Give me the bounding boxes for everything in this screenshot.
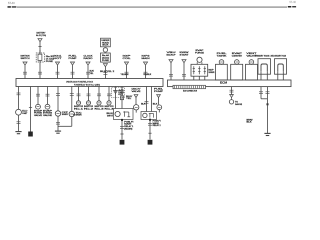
connector feed C1 ignition switch <box>21 55 30 78</box>
relay K3 fuel pump relay <box>141 112 157 120</box>
svg-text:PUMP: PUMP <box>69 58 78 60</box>
svg-text:UNIT: UNIT <box>22 113 28 115</box>
fuse box - under-dash fuse/relay box <box>16 79 163 87</box>
wire - top bus <box>17 6 287 8</box>
svg-text:BLK: BLK <box>247 122 253 124</box>
wire F1 through option connector <box>112 87 125 109</box>
svg-text:VALVE: VALVE <box>43 114 53 117</box>
wire H1 from ECM with arrow <box>229 87 242 106</box>
ground G2 <box>55 131 61 133</box>
wire label above fuse box <box>100 71 115 73</box>
svg-text:SNSR: SNSR <box>76 115 83 117</box>
wire K3 to ground <box>148 121 152 140</box>
oxygen sensor heater HO2S2 <box>271 55 287 80</box>
connector feed C5 <box>84 55 95 78</box>
relay K2 label <box>124 121 134 130</box>
relay K3 junction dot <box>149 119 151 121</box>
fuse holder C6 with fuse <box>101 38 111 78</box>
svg-text:TANK: TANK <box>217 54 228 57</box>
ground point G101 <box>28 132 33 137</box>
relay K1 coil circle <box>195 49 205 63</box>
svg-text:FUSE/RELAY BOX No.2 (ABS): FUSE/RELAY BOX No.2 (ABS) <box>74 84 100 87</box>
injector E2 <box>84 87 95 111</box>
svg-text:ECM CONNECTOR: ECM CONNECTOR <box>183 90 197 92</box>
sensor S1 with connector <box>216 53 228 80</box>
fuse box label <box>66 80 100 86</box>
svg-text:BOX: BOX <box>102 45 109 47</box>
svg-text:57-40: 57-40 <box>289 0 296 4</box>
sensor S3 with connector <box>246 53 258 80</box>
svg-text:HOT: HOT <box>54 58 63 60</box>
injector E3 <box>95 87 106 111</box>
svg-text:No.15 (7.5A): No.15 (7.5A) <box>36 34 46 37</box>
ECM box U1 <box>168 80 292 87</box>
wire F3 <box>141 87 148 112</box>
wire pair H2 from ECM <box>259 87 270 99</box>
solenoid valve D3 <box>34 87 43 117</box>
wire H2 down to ground <box>247 99 268 133</box>
svg-text:BACKUP: BACKUP <box>167 53 177 56</box>
ground point G102 <box>120 140 125 145</box>
svg-text:YEL/BLK: YEL/BLK <box>121 74 130 76</box>
svg-text:PUMP: PUMP <box>154 91 164 93</box>
ground G1 <box>15 132 21 134</box>
relay K2 junction dot <box>121 119 123 121</box>
fuse F15 with feed arrow <box>36 32 55 79</box>
sensor S2 with connector <box>231 52 243 80</box>
ground point G103 <box>148 140 153 145</box>
svg-text:ECM: ECM <box>220 81 227 84</box>
svg-text:COIL: COIL <box>123 58 132 60</box>
svg-text:SNSR: SNSR <box>209 72 216 74</box>
svg-text:VALVE: VALVE <box>132 90 142 93</box>
svg-text:BLK/YEL 2: BLK/YEL 2 <box>100 71 115 73</box>
svg-text:SNSR: SNSR <box>62 114 69 116</box>
wire D6 to D5 junction <box>58 117 72 127</box>
wire D2 to ground point <box>29 87 32 132</box>
wire tag right A16 <box>288 6 296 8</box>
header page label right <box>289 0 296 4</box>
wire K2 to ground <box>120 121 124 140</box>
connector feed C4 <box>69 55 78 78</box>
oxygen sensor heater HO2S1 <box>255 55 271 80</box>
wire tag left A16 <box>8 6 17 8</box>
svg-text:SECONDARY HO2S: SECONDARY HO2S <box>271 55 286 58</box>
connector feed C3 <box>54 55 64 78</box>
svg-text:UNDER-DASH FUSE/RELAY BOX: UNDER-DASH FUSE/RELAY BOX <box>66 80 94 83</box>
connector feed C7 <box>121 55 132 78</box>
header page label left <box>8 1 15 5</box>
wire D1 with connector and TDC sensor <box>16 87 29 132</box>
svg-text:YEL/BLK: YEL/BLK <box>143 74 152 76</box>
svg-text:RELAY 2: RELAY 2 <box>153 124 161 127</box>
wire H2 junction <box>267 103 269 105</box>
wire F4 <box>152 87 159 112</box>
solenoid valve D4 <box>43 87 53 117</box>
connector feed C10 <box>180 52 190 80</box>
injector E1 <box>74 87 85 111</box>
wire D6 with TDC sensor <box>69 87 82 117</box>
svg-text:(MAIN): (MAIN) <box>124 128 132 131</box>
svg-text:VALVE: VALVE <box>34 114 43 117</box>
connector feed C9 <box>167 52 177 80</box>
svg-text:FUSE: FUSE <box>102 60 110 62</box>
connector feed G2 with valve <box>154 89 165 113</box>
svg-text:START: START <box>180 53 190 56</box>
svg-text:P2: P2 <box>73 115 75 117</box>
relay K1 label <box>209 69 216 74</box>
ECM label <box>220 81 227 84</box>
connector feed C8 <box>142 55 152 78</box>
svg-text:MAIN: MAIN <box>142 57 151 60</box>
wire F2 with noise capacitor <box>120 87 133 109</box>
extra label under injector row <box>107 113 115 117</box>
relay K3 label <box>153 121 162 127</box>
svg-text:FUSE: FUSE <box>46 61 54 63</box>
svg-text:SWITCH: SWITCH <box>21 58 30 60</box>
svg-text:PRIMARY HO2S 1: PRIMARY HO2S 1 <box>255 55 271 58</box>
svg-text:CANISTER: CANISTER <box>232 54 242 57</box>
injector E4 <box>105 87 116 111</box>
wire D5 with CKP sensor <box>55 87 68 131</box>
connector feed G1 with valve <box>132 88 142 113</box>
ground G3 <box>264 133 270 135</box>
tiny connector number label <box>73 115 75 117</box>
svg-text:GAUGE: GAUGE <box>235 103 243 106</box>
svg-text:57-40: 57-40 <box>8 1 15 5</box>
svg-text:WHT: WHT <box>107 115 114 117</box>
svg-text:RADIO: RADIO <box>84 57 93 60</box>
relay K2 main relay <box>114 109 134 120</box>
connector C132 label <box>183 90 197 92</box>
relay K1 pins to ECM <box>194 76 205 80</box>
relay K1 body <box>191 62 208 76</box>
svg-text:PURGE: PURGE <box>195 52 205 54</box>
connector C132 strip <box>173 85 206 88</box>
